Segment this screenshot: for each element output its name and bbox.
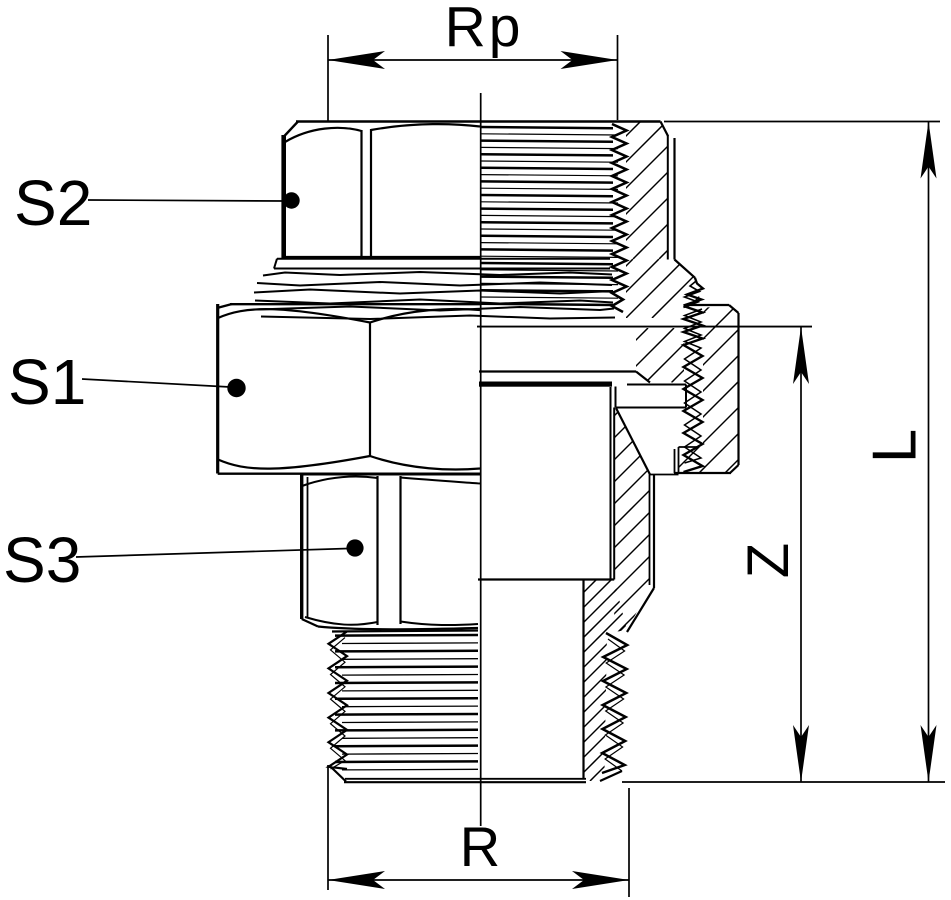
- dimension Rp line: [328, 59, 618, 61]
- hex S3 outline: [300, 475, 303, 620]
- flange bottom: [479, 370, 636, 372]
- leader S1: [82, 379, 230, 387]
- hex S3 face arcs top: [302, 477, 378, 486]
- svg-text:L: L: [861, 429, 930, 463]
- svg-text:S1: S1: [8, 346, 86, 418]
- L extension line top: [664, 121, 940, 123]
- seat shoulder: [478, 578, 614, 580]
- end face lines: [345, 778, 586, 780]
- flange band below hex S2: [277, 258, 610, 260]
- Z and L extension line bottom: [622, 781, 945, 783]
- svg-text:R: R: [460, 815, 500, 878]
- nut section top face: [686, 304, 729, 306]
- nut bore edges: [674, 449, 676, 473]
- male thread R top crest line: [332, 631, 478, 632]
- leader dot S2: [283, 192, 299, 208]
- male thread R bottom chamfer left: [330, 766, 346, 782]
- arrow Rp left: [328, 51, 385, 69]
- label L: [861, 429, 930, 463]
- wavy transition lines: [263, 272, 612, 276]
- union nut S1 left outline: [216, 304, 219, 474]
- dimension R extension line left: [327, 765, 329, 890]
- male thread R left exterior: [329, 632, 348, 770]
- arrow R right: [572, 871, 629, 889]
- nut S1 corner edge: [369, 323, 371, 457]
- Z extension line top / flange top face: [477, 326, 812, 328]
- centerline axis: [480, 93, 482, 826]
- dimension R extension line right: [628, 788, 630, 897]
- leader S2: [88, 200, 285, 201]
- gasket (solid black): [479, 382, 612, 387]
- svg-text:S3: S3: [3, 524, 81, 596]
- top piece outer wall edges: [661, 122, 669, 137]
- nut section bottom face: [674, 472, 731, 474]
- male thread R section right: [602, 633, 627, 773]
- dimension Z line: [800, 327, 802, 782]
- nut S1 face arcs top: [218, 309, 370, 322]
- arrow R left: [328, 871, 385, 889]
- pipe bore wall: [582, 580, 584, 780]
- seat bore walls: [610, 387, 612, 580]
- dimension R line: [328, 879, 629, 881]
- nut section outer edge: [737, 313, 739, 465]
- arrow Z bottom: [793, 725, 809, 782]
- hex S3 corner edges: [376, 476, 378, 625]
- nut shoulder step (air gap): [627, 384, 686, 386]
- hex S3 face arcs bottom: [305, 617, 378, 625]
- bottom piece outer cone: [616, 408, 650, 475]
- leader dot S3: [346, 539, 363, 556]
- arrow Rp right: [561, 51, 618, 69]
- hex S2 corner edges: [360, 130, 362, 258]
- arrow L top: [921, 122, 937, 179]
- dimension Rp extension line right: [617, 35, 619, 120]
- male thread R bottom chamfer right: [600, 771, 622, 781]
- step to engagement thread: [675, 260, 695, 278]
- hex S3 chamfer cone in section: [627, 588, 654, 632]
- svg-text:Z: Z: [736, 543, 801, 578]
- arrow L bottom: [921, 725, 937, 782]
- hex S3 bottom chamfer: [302, 619, 318, 627]
- nut S1 face arcs bottom: [218, 456, 370, 469]
- hex S2 bottom edge: [284, 256, 481, 259]
- thread engagement nut/top piece: [684, 278, 704, 306]
- leader dot S1: [227, 379, 245, 397]
- svg-text:Rp: Rp: [445, 0, 524, 59]
- female thread Rp section: [612, 124, 627, 312]
- dimension Rp extension line left: [327, 35, 329, 122]
- svg-text:S2: S2: [14, 167, 92, 239]
- label Z: [736, 543, 801, 578]
- hex S2 face arcs: [285, 128, 362, 142]
- dimension L line: [928, 122, 930, 783]
- leader S3: [76, 549, 348, 558]
- arrow Z top: [793, 327, 809, 384]
- top piece hex S2 outline: [281, 135, 286, 258]
